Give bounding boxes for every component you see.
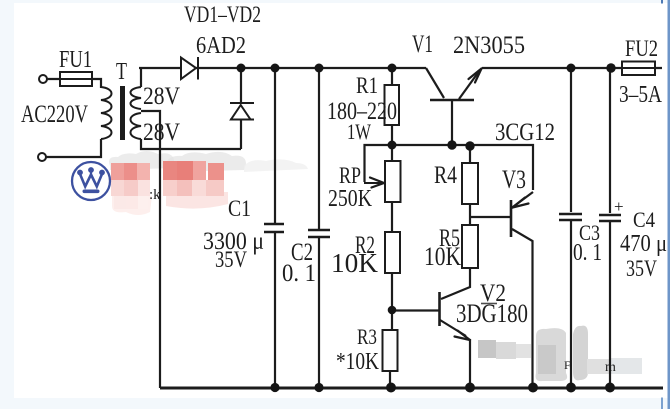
svg-text:3–5A: 3–5A xyxy=(619,82,663,108)
svg-text:C1: C1 xyxy=(228,196,251,221)
svg-text:470 μ: 470 μ xyxy=(620,231,667,257)
svg-text:0. 1: 0. 1 xyxy=(282,260,316,287)
svg-text:R4: R4 xyxy=(434,162,457,189)
svg-text:10K: 10K xyxy=(331,248,379,278)
svg-text:RP: RP xyxy=(339,163,361,188)
svg-text:1W: 1W xyxy=(347,119,371,144)
svg-text:FU1: FU1 xyxy=(59,47,92,73)
svg-text:R3: R3 xyxy=(357,324,377,349)
svg-text:0. 1: 0. 1 xyxy=(573,240,602,266)
svg-text:35V: 35V xyxy=(215,247,247,272)
svg-text:6AD2: 6AD2 xyxy=(196,33,246,59)
svg-text:28V: 28V xyxy=(143,119,180,146)
svg-text:FU2: FU2 xyxy=(625,36,658,61)
svg-text:VD1–VD2: VD1–VD2 xyxy=(184,2,261,27)
svg-text:T: T xyxy=(116,59,127,85)
svg-text:2N3055: 2N3055 xyxy=(453,32,525,59)
svg-text:+: + xyxy=(614,197,624,216)
svg-text:C4: C4 xyxy=(633,207,655,232)
svg-text:10K: 10K xyxy=(424,242,461,271)
svg-text:35V: 35V xyxy=(626,256,657,281)
svg-text:28V: 28V xyxy=(143,83,180,110)
svg-text:V1: V1 xyxy=(412,31,433,58)
svg-text:V3: V3 xyxy=(502,165,526,194)
svg-text:250K: 250K xyxy=(328,186,373,212)
svg-text:3CG12: 3CG12 xyxy=(495,119,555,146)
svg-text:R1: R1 xyxy=(356,73,378,98)
svg-text:*10K: *10K xyxy=(336,349,380,375)
svg-text:AC220V: AC220V xyxy=(21,101,88,128)
